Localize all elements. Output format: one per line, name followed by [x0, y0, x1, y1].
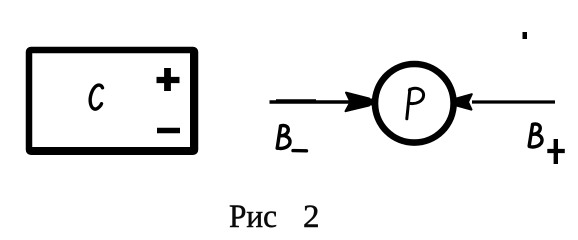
label B- (left, В with subscript minus)	[277, 126, 306, 151]
label B+ (right, В with subscript plus)	[529, 124, 565, 164]
svg-text:2: 2	[303, 199, 320, 235]
box right edge thickening	[190, 49, 196, 152]
wire right arrow shaft	[472, 100, 555, 103]
wire left arrow shaft	[270, 100, 353, 103]
box C (battery/container rectangle)	[29, 50, 195, 152]
label P	[407, 88, 424, 118]
svg-text:Рис: Рис	[229, 199, 277, 235]
left arrowhead	[346, 93, 372, 112]
stray ink speck top right	[523, 32, 528, 39]
circle P (pump symbol)	[375, 64, 454, 143]
label C	[90, 85, 102, 109]
right arrowhead	[454, 94, 472, 109]
plus terminal	[157, 68, 180, 91]
wire ink bumps	[276, 99, 316, 103]
box bottom edge thickening	[28, 147, 196, 152]
minus terminal	[157, 128, 180, 133]
